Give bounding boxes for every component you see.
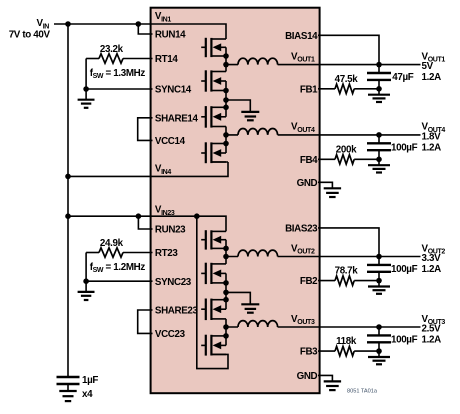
wire VIN to VIN1 pin and internal rail: [54, 24, 226, 39]
node M7 source junction: [223, 297, 229, 303]
svg-text:1.2A: 1.2A: [422, 335, 442, 346]
node junction FB4 ground: [376, 157, 382, 163]
svg-text:47µF: 47µF: [392, 72, 413, 83]
svg-text:RUN14: RUN14: [155, 30, 186, 41]
wire RT23 to SYNC23 junction: [85, 253, 87, 282]
transistor M3 ch4 low-side: [201, 106, 226, 128]
wire SHARE14-VCC14 bracket: [138, 118, 153, 141]
resistor R1 47.5k FB1: [318, 84, 379, 93]
node junction VOUT3: [376, 324, 382, 330]
node junction FB2 ground: [376, 278, 382, 284]
svg-text:200k: 200k: [336, 144, 357, 155]
wire BIAS14 to VOUT1: [318, 35, 379, 64]
svg-text:78.7k: 78.7k: [335, 266, 359, 277]
svg-text:FB2: FB2: [300, 276, 318, 287]
transistor M5 ch2 high-side: [201, 230, 226, 249]
ground internal top half: [226, 100, 259, 120]
node junction SYNC23: [83, 278, 89, 284]
wire left VIN rail: [67, 24, 69, 377]
svg-text:GND: GND: [297, 178, 318, 189]
svg-text:24.9k: 24.9k: [100, 238, 124, 249]
svg-text:RT14: RT14: [155, 54, 178, 65]
svg-text:SHARE14: SHARE14: [155, 113, 199, 124]
resistor R2 78.7k FB2: [318, 276, 379, 285]
node SW4 junction: [223, 132, 229, 138]
node M3 source junction: [223, 105, 229, 111]
node junction FB3 ground: [376, 348, 382, 354]
node junction VIN4 tap: [65, 174, 71, 180]
wire RT14 to SYNC14 junction: [85, 59, 87, 90]
transistor M4 ch4 high-side: [201, 142, 226, 163]
resistor R4 200k FB4: [318, 155, 379, 164]
ground C4 R4: [368, 159, 390, 172]
svg-text:FB4: FB4: [300, 155, 318, 166]
node junction VIN23 rail: [65, 213, 71, 219]
inductor L3 and VOUT3 line: [238, 321, 278, 327]
capacitor C4 100uF: [367, 135, 391, 159]
transistor M1 ch1 high-side: [201, 38, 226, 57]
node junction VOUT1: [376, 62, 382, 68]
node junction SYNC14: [83, 86, 89, 92]
capacitor C3 100uF: [367, 327, 391, 351]
svg-text:3.3V: 3.3V: [422, 253, 442, 264]
wire RUN14 pin connection: [138, 24, 152, 34]
node junction VIN23 internal tap: [194, 213, 200, 219]
svg-text:7V to 40V: 7V to 40V: [9, 30, 51, 41]
node SW2 junction: [223, 254, 229, 260]
ground C1 R1: [368, 89, 390, 102]
svg-text:100µF: 100µF: [391, 335, 418, 346]
ground internal bottom half: [226, 292, 259, 312]
transistor M7 ch3 low-side: [201, 299, 226, 321]
wire M5 source to SW2: [225, 248, 227, 256]
svg-text:100µF: 100µF: [391, 142, 418, 153]
node M6 source junction: [223, 280, 229, 286]
svg-text:GND: GND: [297, 371, 318, 382]
capacitor C1 47uF: [367, 65, 391, 89]
svg-text:RT23: RT23: [155, 248, 178, 259]
resistor RT23 24.9k: [86, 248, 152, 257]
wire VIN23 pin connection and internal rail: [68, 216, 226, 231]
wire SYNC14 pin connection: [86, 88, 152, 90]
svg-text:5V: 5V: [422, 61, 434, 72]
svg-text:FB3: FB3: [300, 347, 318, 358]
node SW1 junction: [223, 62, 229, 68]
svg-text:x4: x4: [82, 389, 93, 400]
node junction VOUT4: [376, 132, 382, 138]
transistor M2 ch1 low-side: [201, 70, 226, 91]
svg-text:47.5k: 47.5k: [335, 74, 359, 85]
node junction VIN rail: [65, 21, 71, 27]
node SW3 junction: [223, 324, 229, 330]
wire SW3 to M8 source: [225, 327, 227, 336]
svg-text:8051 TA01a: 8051 TA01a: [347, 389, 378, 395]
wire SW1 to M2 drain: [225, 65, 227, 72]
node internal ground junction bottom: [223, 290, 229, 296]
svg-text:RUN23: RUN23: [155, 225, 186, 236]
node junction RUN23 tap: [136, 213, 142, 219]
wire M8 drain to VIN23 bypass rail: [197, 216, 228, 368]
transistor M8 ch3 high-side: [201, 335, 226, 356]
ground SYNC14: [85, 89, 87, 99]
inductor L1 and VOUT1 line: [238, 58, 278, 64]
svg-text:23.2k: 23.2k: [100, 44, 124, 55]
transistor M6 ch2 low-side: [201, 263, 226, 284]
node internal ground junction top: [223, 97, 229, 103]
node junction RUN14 tap: [136, 21, 142, 27]
wire RUN23 pin connection: [138, 216, 152, 229]
ground C3 R3: [368, 351, 390, 364]
wire SW2 to M6 drain: [225, 257, 227, 264]
wire M4 drain stub: [211, 161, 228, 163]
svg-text:1.8V: 1.8V: [422, 132, 442, 143]
svg-text:BIAS14: BIAS14: [285, 31, 318, 42]
wire SYNC23 pin connection: [86, 280, 152, 282]
ground SYNC23: [85, 281, 87, 291]
svg-text:2.5V: 2.5V: [422, 324, 442, 335]
node junction VOUT2: [376, 254, 382, 260]
svg-text:SYNC14: SYNC14: [155, 85, 192, 96]
node M2 source junction: [223, 88, 229, 94]
resistor RT14 23.2k: [86, 54, 152, 63]
svg-text:1.2A: 1.2A: [422, 264, 442, 275]
capacitor C2 100uF: [367, 257, 391, 281]
wire M3 drain to SW4: [225, 127, 227, 135]
wire BIAS23 to VOUT2: [318, 228, 379, 257]
wire M6 source to internal ground node bottom: [225, 283, 227, 300]
svg-text:SYNC23: SYNC23: [155, 277, 192, 288]
IC U1 LT8051 body: [151, 8, 320, 394]
svg-text:FB1: FB1: [300, 84, 318, 95]
capacitor CIN 1uF x4: [57, 377, 80, 390]
wire M2 source to internal ground node: [225, 91, 227, 108]
inductor L4 and VOUT4 line: [238, 129, 278, 135]
ground C2 R2: [368, 281, 390, 294]
node junction FB1 ground: [376, 86, 382, 92]
wire M1 source to SW1: [225, 56, 227, 65]
svg-text:1µF: 1µF: [82, 375, 98, 386]
ground GND pin bottom half: [318, 375, 341, 390]
wire SHARE23-VCC23 bracket: [138, 310, 153, 333]
wire VIN4 pin connection: [68, 162, 228, 176]
node M4 source junction: [223, 141, 229, 147]
svg-text:100µF: 100µF: [391, 264, 418, 275]
svg-text:SHARE23: SHARE23: [155, 306, 199, 317]
svg-text:VCC14: VCC14: [155, 136, 186, 147]
ground CIN: [59, 391, 76, 401]
svg-text:1.2A: 1.2A: [422, 142, 442, 153]
node M1 source junction: [223, 53, 229, 59]
svg-text:1.2A: 1.2A: [422, 72, 442, 83]
svg-text:118k: 118k: [336, 336, 357, 347]
ground GND pin top half: [318, 182, 341, 197]
wire SW4 to M4 source: [225, 135, 227, 144]
svg-text:VCC23: VCC23: [155, 329, 186, 340]
svg-text:BIAS23: BIAS23: [285, 224, 318, 235]
node M8 source junction: [223, 333, 229, 339]
inductor L2 and VOUT2 line: [238, 250, 278, 256]
resistor R3 118k FB3: [318, 346, 379, 355]
node M5 source junction: [223, 246, 229, 252]
wire M7 drain to SW3: [225, 319, 227, 327]
